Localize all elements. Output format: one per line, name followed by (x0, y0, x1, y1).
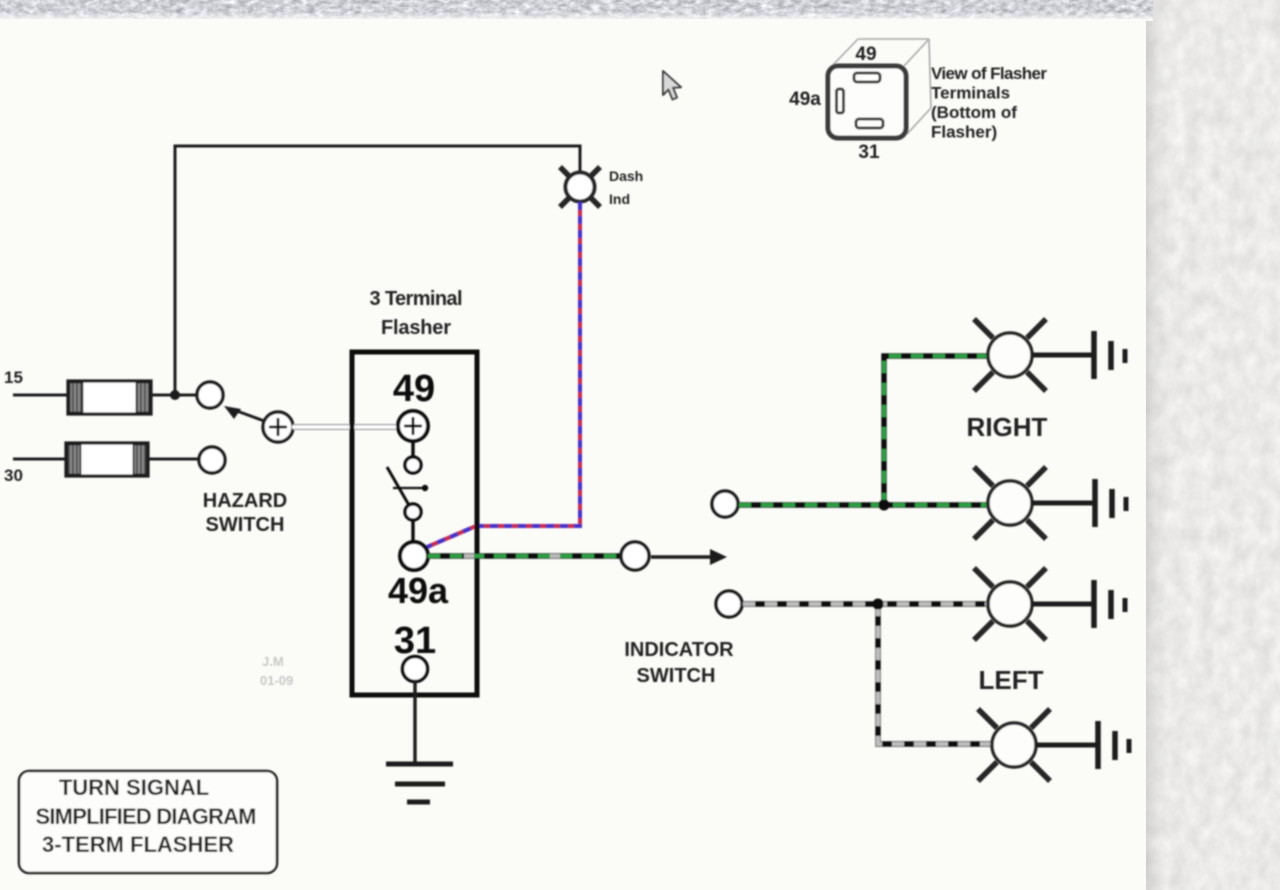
svg-text:SWITCH: SWITCH (206, 514, 285, 536)
svg-text:SWITCH: SWITCH (637, 665, 716, 687)
svg-text:HAZARD: HAZARD (203, 490, 287, 512)
svg-text:31: 31 (858, 142, 880, 163)
svg-text:49: 49 (855, 44, 876, 65)
svg-text:Flasher: Flasher (381, 317, 451, 339)
svg-text:RIGHT: RIGHT (967, 412, 1048, 442)
svg-text:LEFT: LEFT (979, 665, 1044, 695)
svg-text:3-TERM FLASHER: 3-TERM FLASHER (42, 832, 234, 857)
svg-text:Dash: Dash (609, 168, 643, 184)
svg-text:01-09: 01-09 (260, 673, 293, 688)
svg-text:15: 15 (4, 368, 23, 387)
svg-text:49a: 49a (789, 89, 821, 110)
svg-text:49: 49 (393, 368, 435, 410)
svg-text:Terminals: Terminals (931, 84, 1010, 103)
svg-text:(Bottom of: (Bottom of (931, 103, 1017, 122)
svg-text:INDICATOR: INDICATOR (624, 639, 734, 661)
svg-text:30: 30 (4, 466, 23, 485)
svg-text:View of Flasher: View of Flasher (931, 64, 1047, 83)
svg-text:Ind: Ind (609, 191, 630, 207)
svg-text:SIMPLIFIED DIAGRAM: SIMPLIFIED DIAGRAM (36, 804, 257, 829)
svg-text:TURN SIGNAL: TURN SIGNAL (59, 775, 209, 800)
svg-text:3 Terminal: 3 Terminal (370, 288, 463, 310)
svg-text:49a: 49a (388, 570, 449, 611)
svg-text:J.M: J.M (262, 654, 284, 669)
svg-text:Flasher): Flasher) (931, 123, 997, 142)
